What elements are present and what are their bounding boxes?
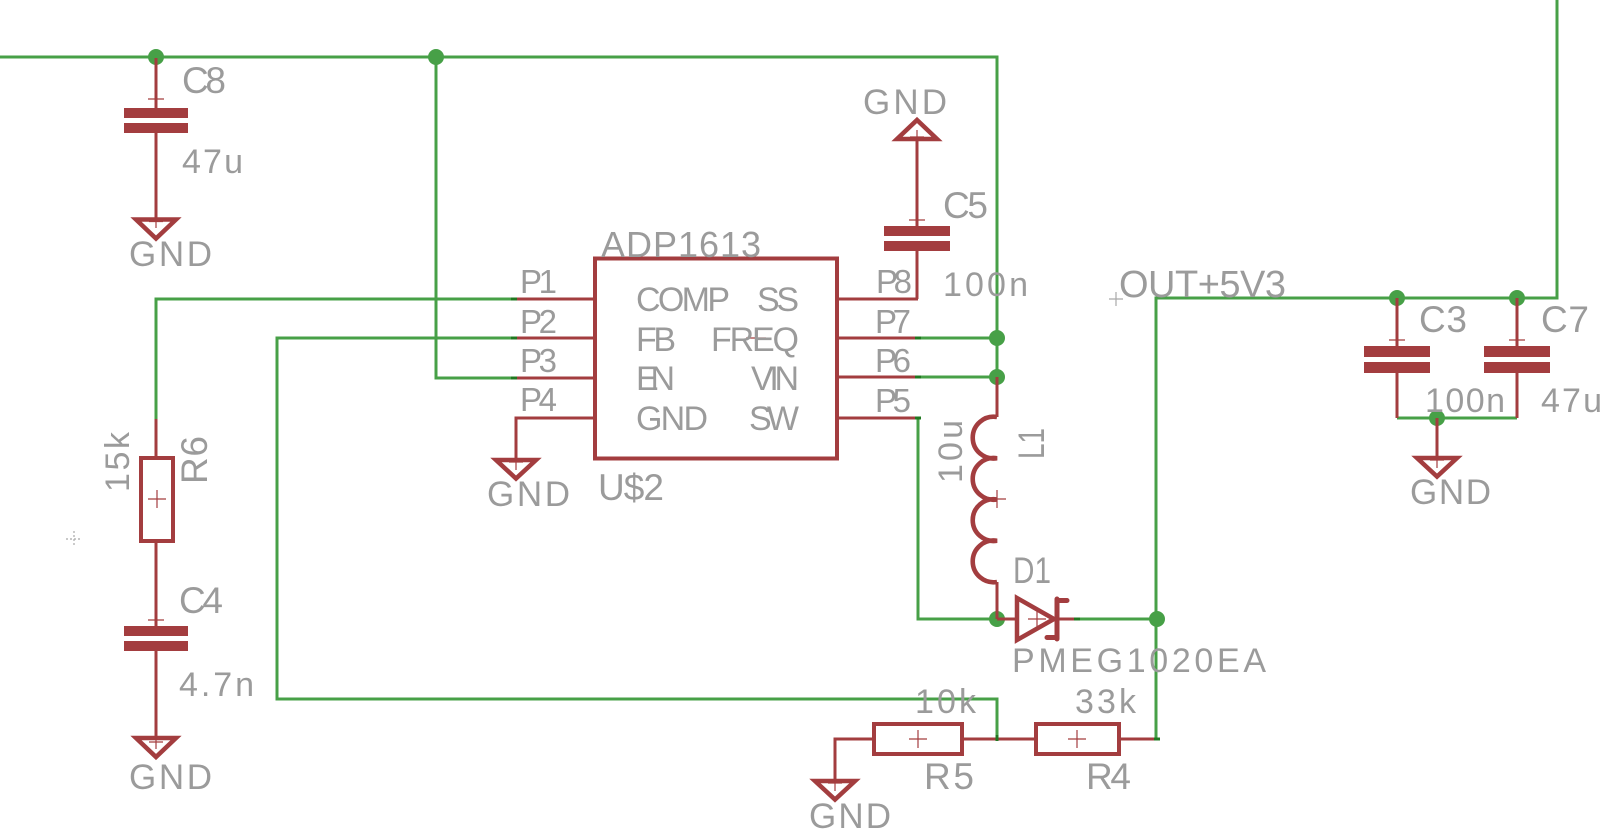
- wire P7 stub net: [918, 337, 997, 340]
- pin end nubs dark green: [511, 298, 1160, 742]
- svg-text:P3: P3: [520, 342, 557, 379]
- svg-text:ADP1613: ADP1613: [601, 224, 761, 265]
- svg-text:OUT+5V3: OUT+5V3: [1119, 264, 1286, 306]
- svg-text:P7: P7: [875, 303, 911, 340]
- node origin cross left: [66, 531, 82, 547]
- svg-text:GND: GND: [129, 758, 212, 797]
- wire P6 stub net: [918, 376, 997, 379]
- junction dot at C8 tap: [148, 49, 164, 65]
- wire OUT+5V3 net: [1156, 0, 1557, 739]
- capacitor C7: [1484, 298, 1602, 420]
- svg-text:4.7n: 4.7n: [179, 666, 254, 704]
- ground GND below C3 C7: [1410, 418, 1491, 512]
- diode D1 PMEG1020EA: [997, 550, 1266, 680]
- svg-text:P8: P8: [876, 263, 912, 300]
- wire R5 to R4: [962, 738, 1036, 741]
- svg-text:P6: P6: [875, 342, 911, 379]
- ground GND below R5: [809, 779, 891, 836]
- junction dot diode cathode OUT: [1149, 611, 1165, 627]
- inductor L1: [932, 377, 1052, 619]
- resistor R4: [1036, 683, 1137, 797]
- junction dot C3 C7 gnd: [1429, 410, 1445, 426]
- svg-text:P4: P4: [520, 381, 557, 418]
- ground GND below C4: [129, 736, 212, 797]
- capacitor C5: [884, 141, 1028, 304]
- svg-text:33k: 33k: [1075, 683, 1137, 721]
- pin P5 SW: [749, 382, 918, 438]
- wire COMP net P1: [156, 299, 514, 419]
- svg-text:R5: R5: [924, 756, 974, 797]
- pin P8 SS: [757, 263, 918, 319]
- pin P2 FB: [514, 303, 676, 359]
- svg-text:C7: C7: [1541, 299, 1589, 340]
- junction dot P6: [989, 369, 1005, 385]
- pin P4 GND: [516, 381, 708, 458]
- wire top rail VIN net: [0, 57, 997, 377]
- junction dot P7: [989, 330, 1005, 346]
- svg-text:SW: SW: [749, 400, 799, 438]
- pin P6 VIN: [751, 342, 918, 398]
- junction dot C3 top: [1389, 290, 1405, 306]
- wire FB net P2: [277, 338, 997, 739]
- wire R4 to OUT drop: [1119, 738, 1157, 741]
- svg-text:VIN: VIN: [751, 360, 799, 398]
- svg-text:GND: GND: [487, 475, 570, 514]
- svg-text:P2: P2: [520, 303, 557, 340]
- node OUT+5V3 label: [1109, 264, 1286, 306]
- svg-text:C8: C8: [182, 60, 226, 101]
- svg-text:10k: 10k: [915, 683, 977, 721]
- ground GND below C8: [129, 214, 212, 274]
- svg-text:R4: R4: [1086, 756, 1131, 797]
- svg-text:D1: D1: [1013, 550, 1051, 591]
- svg-text:GND: GND: [809, 797, 891, 836]
- svg-text:COMP: COMP: [636, 281, 730, 319]
- svg-text:15k: 15k: [99, 431, 137, 492]
- wire diode cathode to OUT: [1076, 618, 1157, 621]
- resistor R5: [835, 683, 977, 797]
- svg-text:C5: C5: [943, 185, 988, 226]
- wire SW net P5 to diode: [918, 418, 997, 619]
- svg-text:C3: C3: [1419, 299, 1467, 340]
- capacitor C8: [124, 58, 243, 218]
- svg-text:47u: 47u: [182, 143, 243, 181]
- pin P1 COMP: [514, 263, 730, 319]
- svg-text:GND: GND: [863, 83, 947, 122]
- svg-text:47u: 47u: [1541, 382, 1602, 420]
- resistor R6: [99, 419, 215, 626]
- wire EN net P3: [436, 57, 514, 378]
- svg-text:GND: GND: [636, 400, 708, 438]
- svg-text:100n: 100n: [943, 266, 1028, 304]
- junction dot diode anode: [989, 611, 1005, 627]
- svg-text:P5: P5: [875, 382, 911, 419]
- capacitor C4: [124, 580, 254, 736]
- wire C3 C7 gnd link: [1397, 417, 1517, 420]
- svg-text:FB: FB: [636, 321, 676, 359]
- junction dot C7 top: [1509, 290, 1525, 306]
- svg-text:P1: P1: [520, 263, 557, 300]
- svg-text:R6: R6: [174, 436, 215, 484]
- svg-text:PMEG1020EA: PMEG1020EA: [1012, 642, 1266, 680]
- svg-text:GND: GND: [129, 235, 212, 274]
- svg-text:EN: EN: [636, 360, 675, 398]
- svg-text:FREQ: FREQ: [711, 321, 799, 359]
- svg-text:100n: 100n: [1425, 382, 1505, 420]
- ground GND above C5: [863, 83, 947, 144]
- ground GND below P4: [487, 458, 570, 514]
- op-amp U1 IC U$2 ADP1613 body: [595, 224, 837, 508]
- svg-text:U$2: U$2: [598, 467, 664, 508]
- svg-text:GND: GND: [1410, 473, 1491, 512]
- svg-text:SS: SS: [757, 281, 799, 319]
- svg-text:L1: L1: [1011, 428, 1052, 459]
- capacitor C3: [1364, 298, 1505, 420]
- svg-text:C4: C4: [179, 580, 223, 621]
- junction dot at EN drop: [428, 49, 444, 65]
- pin P3 EN: [514, 342, 675, 398]
- svg-text:10u: 10u: [932, 420, 970, 483]
- pin P7 FREQ: [711, 303, 918, 359]
